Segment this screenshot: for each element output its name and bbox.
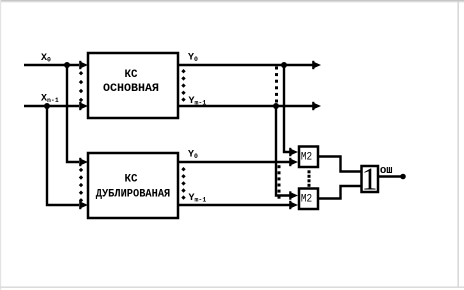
svg-text:ОШ: ОШ <box>380 165 393 176</box>
svg-text:М2: М2 <box>301 193 312 205</box>
svg-text:КС: КС <box>125 69 138 81</box>
svg-text:КС: КС <box>125 174 138 186</box>
svg-text:1: 1 <box>362 161 378 197</box>
svg-text:М2: М2 <box>301 151 312 163</box>
svg-text:ОСНОВНАЯ: ОСНОВНАЯ <box>103 83 159 95</box>
svg-text:ДУБЛИРОВАНАЯ: ДУБЛИРОВАНАЯ <box>96 189 171 201</box>
